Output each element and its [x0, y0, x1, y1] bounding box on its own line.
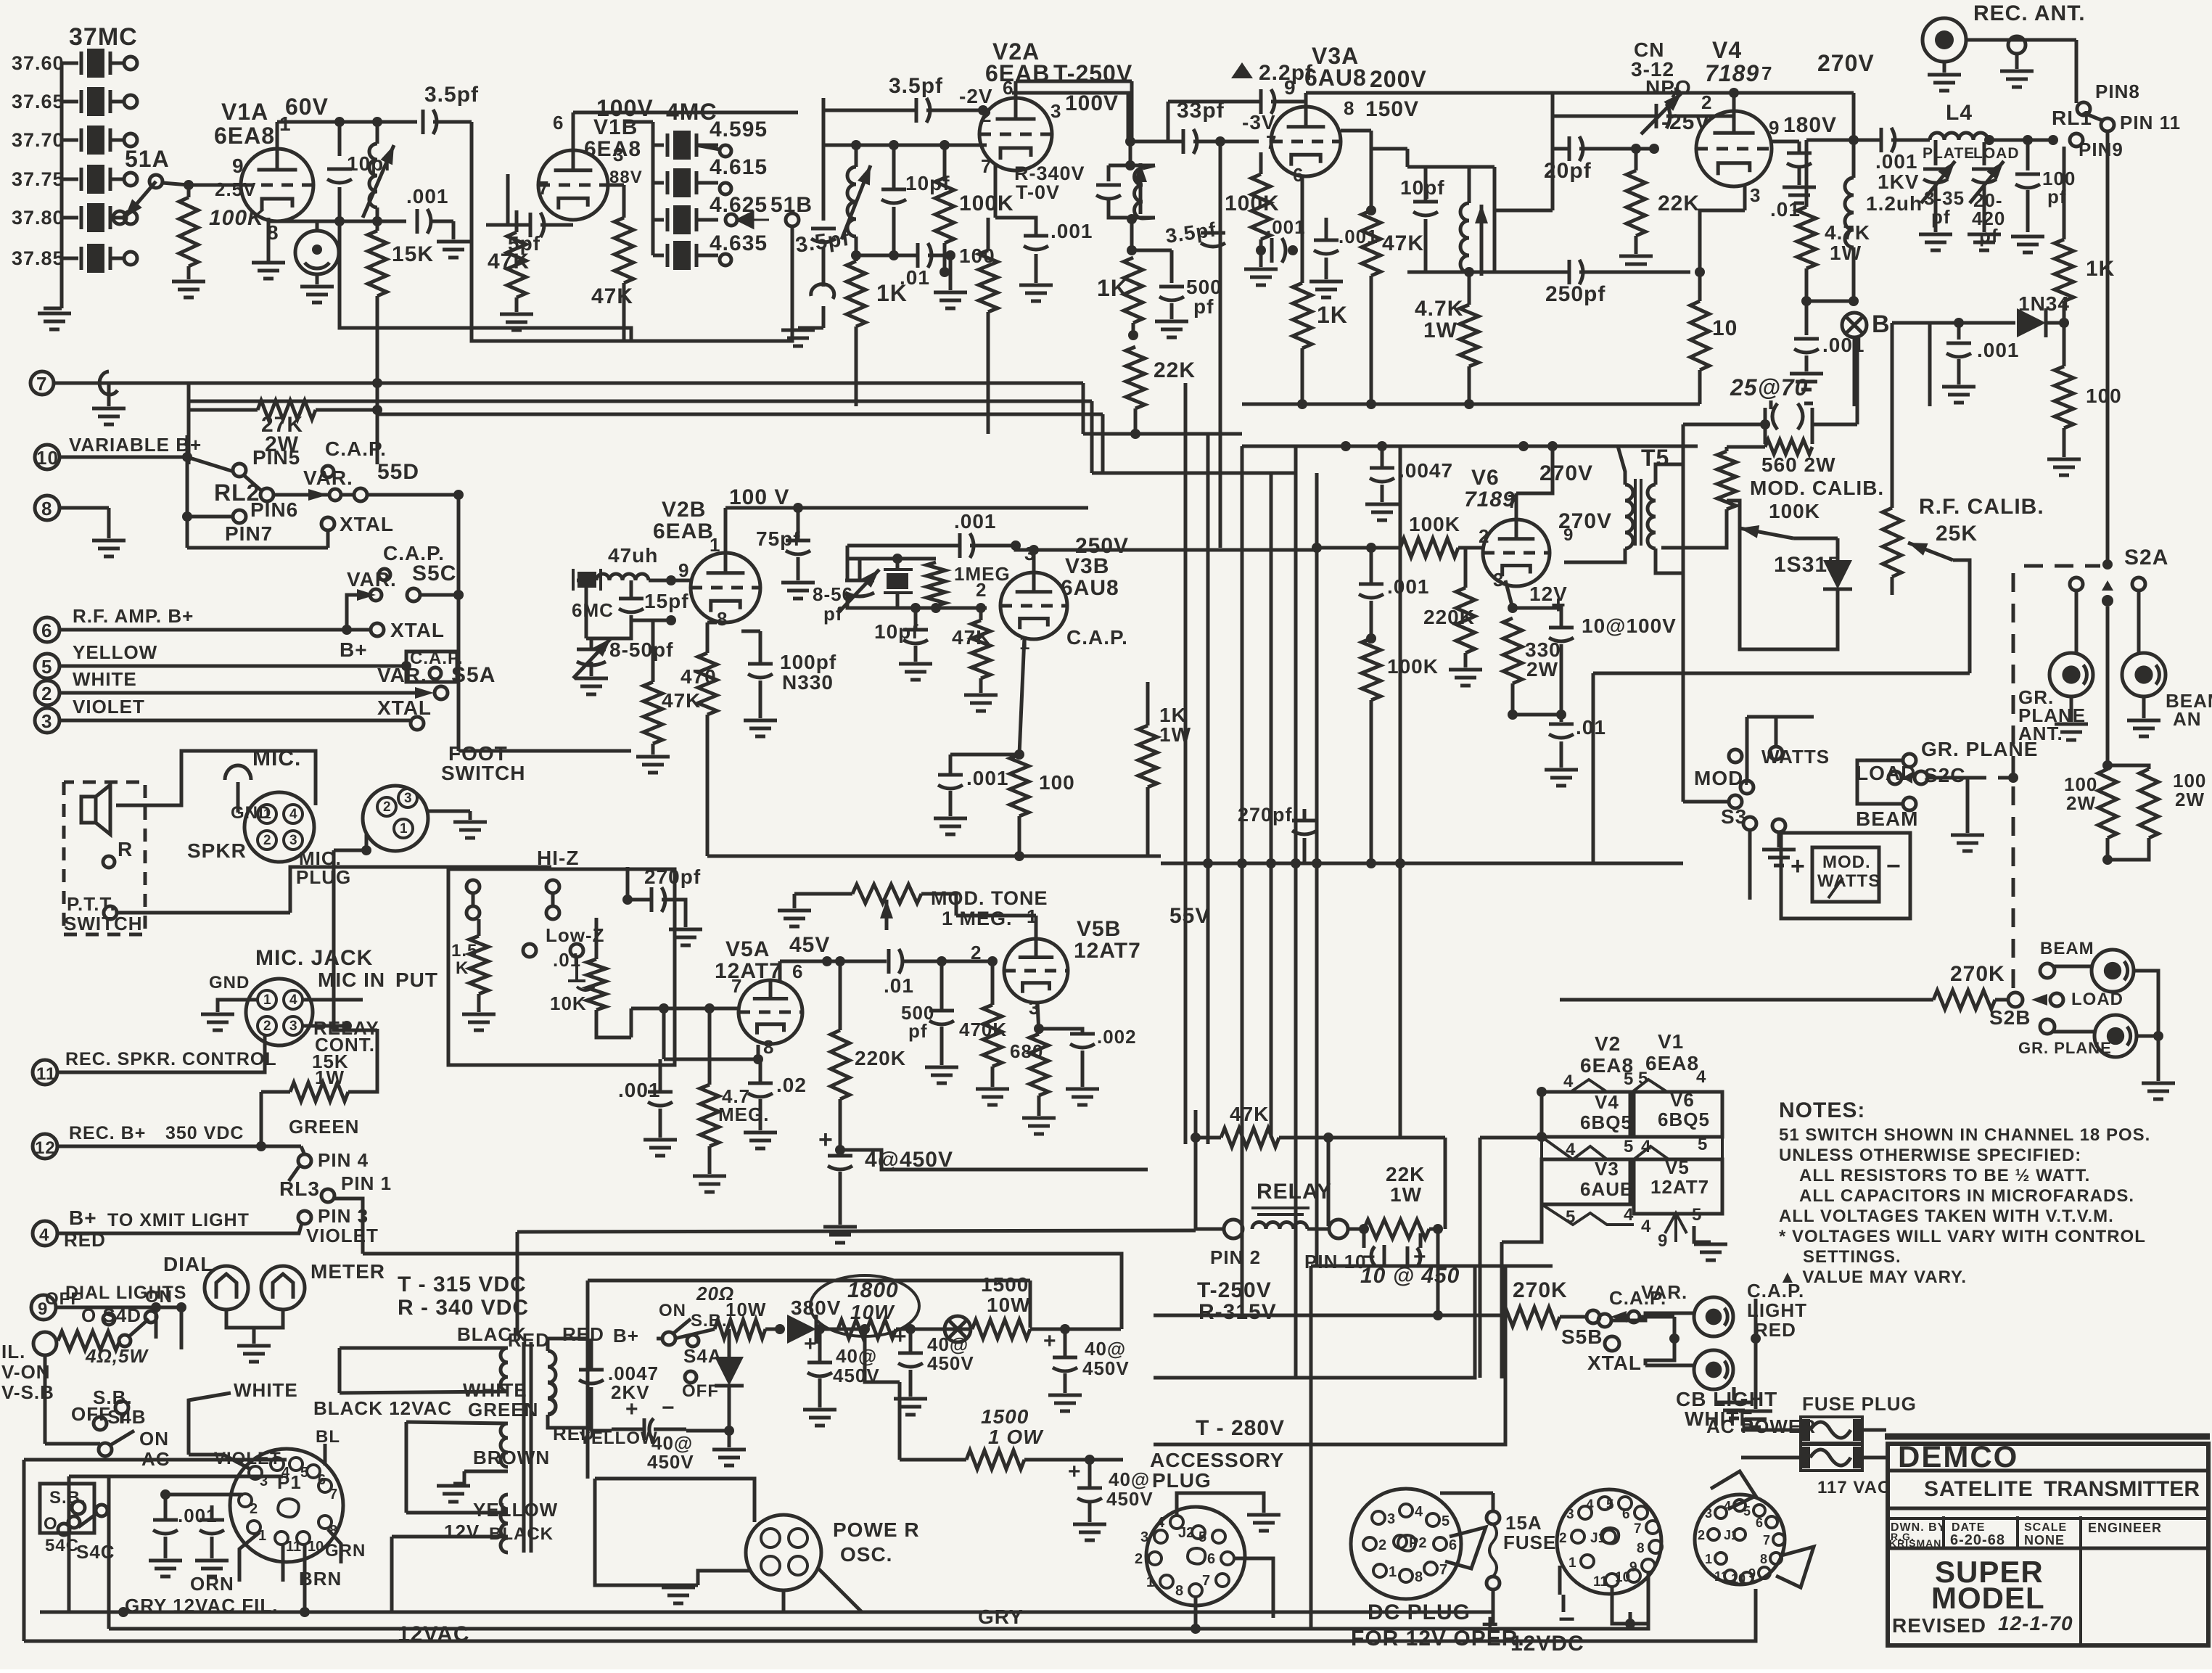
svg-text:1: 1 — [263, 992, 271, 1008]
wire — [1732, 93, 1736, 116]
wire — [405, 1422, 408, 1513]
svg-text:J1: J1 — [1724, 1528, 1738, 1542]
connector J1 — [1557, 1489, 1661, 1594]
wire — [1579, 271, 1690, 274]
svg-text:RELAY: RELAY — [1257, 1180, 1332, 1204]
svg-text:POWE R: POWE R — [833, 1518, 920, 1541]
svg-text:6EAB: 6EAB — [653, 519, 714, 543]
svg-text:T-0V: T-0V — [1016, 181, 1060, 203]
wire — [1513, 713, 1561, 717]
svg-text:MOD.: MOD. — [1822, 852, 1871, 872]
wire bus 652 — [1092, 472, 1296, 475]
junction — [1127, 245, 1137, 255]
svg-text:2: 2 — [1559, 1531, 1567, 1546]
wire — [1747, 715, 1814, 719]
pin 2 MIC plug — [258, 831, 276, 850]
wire — [653, 218, 664, 222]
svg-text:6BQ5: 6BQ5 — [1658, 1109, 1710, 1130]
wire — [1853, 337, 1857, 406]
svg-text:C.A.P.: C.A.P. — [325, 437, 387, 460]
wire dashed S2A — [2024, 564, 2100, 568]
svg-text:40@: 40@ — [1109, 1468, 1150, 1490]
terminal PIN9 — [2070, 133, 2083, 147]
junction — [753, 1054, 763, 1064]
svg-text:PIN5: PIN5 — [252, 446, 300, 469]
svg-text:5: 5 — [1198, 1529, 1206, 1545]
svg-text:WHITE: WHITE — [234, 1379, 298, 1401]
wire 200V rail — [1306, 91, 1553, 95]
wire — [1271, 93, 1306, 102]
wire — [1301, 348, 1304, 406]
resistor 100K mixer — [935, 178, 954, 243]
svg-text:5: 5 — [1624, 1137, 1634, 1156]
wire — [1064, 1329, 1067, 1357]
svg-text:V1A: V1A — [221, 99, 268, 125]
junction — [1366, 633, 1376, 644]
terminal 12 — [33, 1134, 57, 1159]
junction — [118, 1607, 128, 1617]
svg-text:+: + — [1068, 1460, 1082, 1484]
svg-text:51A: 51A — [125, 146, 170, 172]
wire cathode row — [268, 220, 406, 223]
ground 40 d — [1048, 1395, 1082, 1411]
terminal load sw — [1888, 771, 1901, 784]
capacitor LOAD tune — [1972, 169, 1997, 183]
pin 2 foot switch — [377, 797, 396, 816]
wire — [508, 223, 530, 227]
wire tank bottom — [1109, 200, 1155, 218]
junction — [1464, 267, 1474, 277]
wire filter bus — [651, 145, 655, 255]
svg-text:37MC: 37MC — [69, 23, 138, 51]
capacitor 10pf 2 — [881, 189, 906, 203]
terminal S2B — [2008, 992, 2023, 1007]
capacitor .02 — [748, 1083, 773, 1097]
wire trunk — [1206, 434, 1210, 1144]
terminal beam feed — [2132, 577, 2145, 591]
terminal S1A to 37.80 — [113, 211, 126, 224]
svg-text:100V: 100V — [1065, 91, 1119, 115]
svg-text:3: 3 — [1051, 100, 1061, 122]
svg-text:REC. ANT.: REC. ANT. — [1973, 1, 2086, 25]
crystal 4.635 — [667, 241, 696, 270]
svg-text:1K: 1K — [1097, 275, 1128, 301]
wire — [1812, 423, 1857, 427]
wire — [107, 1476, 111, 1629]
svg-text:2: 2 — [250, 1501, 258, 1517]
svg-text:S4B: S4B — [107, 1406, 147, 1428]
terminal CAP 1 — [322, 466, 334, 477]
wire — [110, 139, 125, 142]
junction — [1669, 1333, 1679, 1344]
wire box top — [588, 1279, 1030, 1283]
junction — [815, 1324, 825, 1334]
svg-text:BLACK: BLACK — [489, 1524, 554, 1544]
pin J1 AC power — [1724, 1528, 1746, 1542]
wire — [651, 122, 655, 145]
ground line a — [149, 1561, 182, 1577]
terminal 9 — [31, 1295, 56, 1320]
svg-text:MOD. CALIB.: MOD. CALIB. — [1750, 477, 1884, 499]
wire — [1303, 838, 1307, 863]
resistor 1K V3A — [1293, 283, 1312, 348]
svg-text:3: 3 — [1705, 1506, 1712, 1521]
svg-text:1K: 1K — [1317, 302, 1348, 328]
junction — [1125, 160, 1135, 170]
svg-text:1W: 1W — [1390, 1183, 1422, 1206]
wire PTT — [117, 911, 290, 915]
junction — [978, 105, 988, 115]
svg-text:380V: 380V — [791, 1296, 841, 1319]
wire — [210, 1537, 214, 1558]
pin 3 DC plug — [1372, 1511, 1395, 1527]
svg-text:S4A: S4A — [683, 1345, 723, 1367]
wire — [940, 961, 944, 1011]
resistor 560 2W — [1765, 440, 1812, 454]
svg-text:270pf: 270pf — [644, 866, 701, 888]
ground line b — [195, 1561, 229, 1577]
ground plate cap — [1919, 234, 1952, 250]
arrow load tune — [1970, 161, 2004, 203]
pin 5 P1 — [289, 1458, 308, 1481]
wire — [1798, 141, 1801, 152]
wire — [934, 606, 938, 608]
svg-text:100: 100 — [2086, 385, 2122, 407]
pin 3 accessory — [1140, 1529, 1167, 1545]
diode 1N34 — [2017, 308, 2046, 337]
terminal s4b off — [94, 1417, 107, 1430]
wire V5A cathode — [757, 1045, 760, 1059]
pin 5 J1 — [1606, 1497, 1632, 1513]
wire — [237, 782, 240, 813]
junction — [1377, 441, 1387, 451]
pin 6 J1 — [1622, 1506, 1648, 1522]
svg-text:V3: V3 — [1595, 1158, 1619, 1180]
wire — [855, 237, 858, 261]
svg-text:K: K — [456, 958, 469, 978]
resistor 1500 10W 2 — [966, 1450, 1024, 1469]
title block outer — [1888, 1444, 2208, 1645]
wire — [1560, 644, 1563, 715]
junction — [256, 1141, 266, 1151]
wire — [1307, 1228, 1329, 1231]
svg-text:1W: 1W — [1423, 318, 1457, 342]
tube V1A 6EA8 — [241, 149, 313, 221]
wire — [1500, 1242, 1504, 1378]
terminal PTT — [104, 906, 117, 919]
svg-text:+: + — [1551, 591, 1566, 619]
wire — [1957, 359, 1961, 385]
wire — [926, 109, 983, 112]
terminal XTAL 3 — [411, 717, 424, 730]
svg-text:FUSE: FUSE — [1503, 1532, 1556, 1553]
wire crystal bus — [60, 63, 64, 308]
wire V4 plate — [1732, 93, 1736, 111]
wire — [1592, 673, 1595, 863]
svg-text:6: 6 — [41, 620, 52, 641]
wire — [1957, 323, 1961, 340]
wire — [290, 867, 551, 913]
wire — [1551, 93, 1555, 149]
svg-text:7: 7 — [1763, 1533, 1770, 1547]
antenna terminal — [2008, 36, 2026, 54]
wire — [419, 593, 459, 597]
junction — [835, 956, 845, 966]
wire — [622, 185, 626, 218]
svg-text:3: 3 — [260, 1473, 268, 1489]
terminal S5A — [435, 686, 448, 699]
wire — [1259, 239, 1263, 250]
capacitor .001 V4b — [1794, 339, 1819, 353]
resistor 100K V3A — [1251, 174, 1270, 239]
wire — [1852, 140, 1856, 178]
wire — [839, 1099, 842, 1150]
resistor 47K filter — [614, 218, 633, 283]
wire — [1611, 1313, 1693, 1320]
wire — [949, 255, 953, 290]
connector P1 plug — [230, 1449, 343, 1562]
P1 keyway — [278, 1499, 299, 1517]
wire — [979, 678, 983, 693]
pin 4 accessory — [1156, 1515, 1183, 1531]
terminal fuse a — [1487, 1511, 1500, 1524]
terminal PIN11 — [2101, 118, 2114, 131]
wire — [1492, 1493, 1495, 1511]
svg-text:V3B: V3B — [1065, 554, 1109, 578]
svg-text:3: 3 — [1387, 1511, 1395, 1527]
wire 12vac bus — [24, 1640, 972, 1643]
wire — [69, 1475, 283, 1479]
junction bus 557 — [1366, 399, 1376, 409]
svg-text:45V: 45V — [789, 933, 830, 957]
wire — [928, 254, 950, 258]
wire box right — [1029, 1281, 1032, 1328]
wire — [1259, 250, 1263, 267]
wire — [367, 493, 459, 497]
svg-text:9: 9 — [678, 559, 689, 581]
wire V1B plate — [572, 112, 575, 150]
wire foot switch down — [334, 850, 377, 1030]
capacitor 8-56pf variable — [845, 580, 874, 596]
svg-text:270V: 270V — [1539, 461, 1593, 485]
wire — [846, 546, 850, 580]
wire relay cont — [303, 1024, 347, 1028]
junction — [1127, 214, 1137, 224]
svg-text:7: 7 — [981, 155, 992, 177]
svg-text:25@70: 25@70 — [1730, 374, 1808, 400]
wire pin1 — [239, 1532, 260, 1582]
capacitor 20pf — [1569, 136, 1583, 161]
junction — [1760, 419, 1770, 429]
wire — [1081, 1051, 1085, 1087]
svg-text:470: 470 — [681, 665, 717, 688]
junction — [1625, 1619, 1635, 1629]
wire — [1513, 608, 1561, 628]
pin 10 J1 — [1615, 1569, 1640, 1585]
wire — [1966, 38, 2076, 42]
svg-text:ON: ON — [139, 1428, 169, 1450]
junction — [622, 895, 633, 905]
wire — [1064, 1373, 1067, 1393]
svg-text:100: 100 — [1039, 771, 1075, 794]
junction — [1256, 245, 1266, 255]
svg-text:1: 1 — [1705, 1552, 1712, 1566]
svg-text:51 SWITCH SHOWN IN CHANNEL 18: 51 SWITCH SHOWN IN CHANNEL 18 POS. — [1779, 1125, 2150, 1145]
svg-text:4: 4 — [1624, 1205, 1634, 1225]
terminal crystal 37.85 — [124, 252, 137, 265]
svg-text:37.70: 37.70 — [12, 129, 65, 151]
ground accessory — [1247, 1515, 1280, 1531]
capacitor 3.5pf — [423, 110, 437, 134]
crystal 37.75 MC — [81, 165, 110, 194]
junction bus — [1237, 858, 1247, 868]
ground 47K V1B — [500, 314, 533, 330]
svg-text:560 2W: 560 2W — [1761, 453, 1836, 476]
svg-text:8: 8 — [1175, 1583, 1183, 1599]
box V4 6BQ5 — [1542, 1092, 1630, 1137]
terminal 8 — [35, 496, 59, 520]
svg-text:12AT7: 12AT7 — [1074, 939, 1141, 963]
T core a — [522, 1342, 526, 1553]
wire — [1088, 1460, 1092, 1487]
wire brown — [453, 1471, 464, 1484]
svg-text:V4: V4 — [1712, 37, 1742, 63]
wire — [1170, 250, 1174, 283]
capacitor .001 V2A — [1024, 236, 1048, 250]
pin 1 accessory — [1146, 1574, 1173, 1590]
capacitor 40@450 e — [1077, 1488, 1102, 1502]
crystal 37.85 MC — [81, 244, 110, 273]
meter needle — [1828, 878, 1843, 898]
wire — [1656, 548, 1683, 573]
ground .0047 — [1365, 504, 1399, 520]
P2 keyway — [1398, 1535, 1415, 1551]
wire — [1130, 219, 1134, 250]
meter outer box — [1781, 833, 1910, 918]
junction — [1649, 144, 1659, 154]
wire — [2063, 301, 2066, 323]
capacitor 40@450 d — [1053, 1357, 1077, 1371]
terminal PIN8 — [2077, 102, 2090, 115]
wire — [1424, 167, 1428, 202]
svg-text:3.5pf: 3.5pf — [889, 74, 943, 98]
pin 7 P1 — [318, 1479, 337, 1503]
wire — [1494, 209, 1553, 213]
pin 1 MIC jack — [258, 990, 276, 1009]
junction — [182, 511, 192, 522]
svg-text:NPO: NPO — [1645, 76, 1692, 99]
resistor 1K out — [2055, 239, 2073, 301]
svg-text:4.7K: 4.7K — [1825, 221, 1870, 244]
svg-text:10pf: 10pf — [1400, 176, 1445, 199]
svg-text:SWITCH: SWITCH — [441, 762, 525, 784]
wire — [956, 914, 1036, 918]
resistor 270K — [1933, 990, 1995, 1009]
pin 4 AC power — [1724, 1499, 1746, 1513]
connector FOOT SWITCH — [363, 786, 428, 851]
capacitor 40@450V input — [612, 1418, 686, 1440]
fuse 15A — [1489, 1524, 1497, 1577]
wire — [1341, 129, 1371, 133]
wire corner 1505 — [1090, 401, 1094, 473]
wire — [1370, 601, 1373, 638]
pin 6 P1 — [307, 1465, 326, 1488]
svg-text:470K: 470K — [959, 1019, 1007, 1040]
junction bus 557 — [1464, 399, 1474, 409]
wire — [67, 1476, 71, 1612]
wire — [2137, 1035, 2158, 1038]
wire mic — [181, 751, 316, 805]
switch VAR contact 1 — [308, 489, 328, 501]
wire — [1370, 548, 1373, 584]
wire — [839, 961, 842, 1030]
wire — [759, 681, 762, 718]
terminal R — [103, 856, 115, 868]
pin 10 AC power — [1731, 1571, 1753, 1586]
svg-text:1N34: 1N34 — [2018, 292, 2070, 315]
wire — [1458, 546, 1483, 550]
svg-text:47K: 47K — [1382, 231, 1424, 255]
terminal PIN1 — [321, 1189, 334, 1202]
wire — [1683, 423, 1765, 427]
wire — [991, 961, 995, 1005]
capacitor .001 V3B — [938, 775, 963, 789]
lamp B — [1842, 313, 1867, 337]
ground lamps — [237, 1346, 271, 1362]
pin 4 MIC plug — [284, 805, 303, 823]
wire — [1303, 809, 1307, 821]
svg-text:22K: 22K — [1154, 358, 1196, 382]
wire — [1700, 210, 1745, 272]
junction — [361, 845, 371, 855]
svg-text:S2A: S2A — [2124, 546, 2168, 570]
svg-text:4.625: 4.625 — [710, 193, 768, 217]
svg-text:9: 9 — [232, 155, 244, 177]
wire trunk — [1315, 473, 1319, 1266]
terminal VAR 2 — [370, 589, 382, 601]
capacitor 33pf — [1183, 129, 1197, 154]
wire — [347, 595, 357, 630]
wire — [1196, 1228, 1224, 1231]
wire — [698, 1571, 751, 1585]
svg-text:10: 10 — [1712, 316, 1738, 340]
svg-text:3: 3 — [1493, 569, 1504, 591]
wire bus r315 — [1154, 1266, 1475, 1378]
wire — [914, 608, 918, 630]
wire — [1134, 408, 1138, 434]
arrow mod calib wiper — [1740, 525, 1793, 538]
pin 1 MIC plug — [258, 805, 276, 823]
svg-text:GND: GND — [231, 803, 271, 823]
box HI-Z network — [448, 869, 675, 1065]
svg-text:T-250V: T-250V — [1197, 1278, 1272, 1302]
pin 10 P1 — [297, 1532, 324, 1555]
ground brown — [437, 1486, 470, 1502]
svg-text:VIOLET: VIOLET — [214, 1449, 281, 1468]
junction — [300, 1607, 310, 1617]
svg-text:ON: ON — [659, 1301, 686, 1320]
wire — [1983, 185, 1986, 232]
junction — [1014, 749, 1024, 760]
wire bus 1698 — [517, 1230, 1196, 1232]
svg-text:6: 6 — [1207, 1551, 1215, 1567]
microphone symbol — [225, 765, 251, 780]
wire bus 557 — [1242, 403, 1700, 406]
pin power osc — [789, 1529, 807, 1547]
wire — [1891, 323, 1894, 508]
wire — [1618, 445, 1698, 448]
wire — [1805, 301, 1809, 335]
